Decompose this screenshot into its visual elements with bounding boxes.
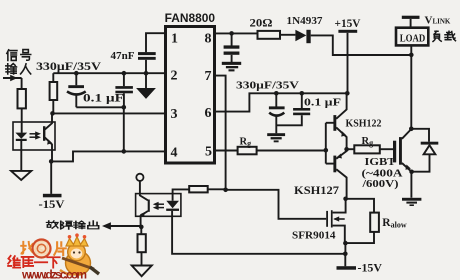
- junction dot pin7/gate node: [223, 188, 228, 193]
- power +15V rail: [338, 30, 357, 33]
- svg-text:2: 2: [171, 69, 178, 84]
- svg-text:SFR9014: SFR9014: [292, 230, 336, 242]
- junction dot IGBT emitter: [409, 170, 414, 175]
- svg-text:6: 6: [205, 106, 212, 121]
- junction dot C4 top: [229, 31, 234, 36]
- resistor R7 Ralow: [370, 213, 379, 232]
- wire source node down: [344, 243, 346, 254]
- wire R3 to D2: [280, 34, 295, 36]
- junction dot drain node: [343, 197, 348, 202]
- resistor R4 (opto U3 LED feed): [189, 186, 208, 192]
- junction dot caps rail: [122, 105, 127, 110]
- wire pin 5: [215, 150, 238, 152]
- wire LOAD bottom: [410, 45, 412, 55]
- wire fault output with left arrow: [111, 225, 142, 227]
- transistor Q1 KSH122: [326, 122, 334, 124]
- junction dot emitters node: [344, 147, 349, 152]
- junction dot -15V node: [343, 252, 348, 257]
- junction dot emitter U2: [49, 159, 54, 164]
- wire pin 8 rail: [215, 32, 258, 34]
- phototransistor inside U3: [148, 200, 150, 212]
- junction dot C1 top: [74, 71, 79, 76]
- ground (solid) below C3: [136, 88, 156, 99]
- wire U3 LED cathode long run: [172, 211, 345, 254]
- wire bases vertical: [325, 123, 327, 164]
- capacitor C4 (pin8 decoupling): [231, 33, 233, 45]
- svg-text:20Ω: 20Ω: [250, 16, 273, 30]
- wire pin 3 rail: [53, 112, 166, 114]
- MOSFET Q4 SFR9014: [326, 211, 328, 227]
- svg-text:47nF: 47nF: [111, 50, 135, 62]
- resistor R8 (fault pull-down): [140, 227, 142, 234]
- capacitor C2 0.1uF: [123, 73, 125, 86]
- junction dot on pin 4 rail: [122, 149, 127, 154]
- svg-text:/600V): /600V): [361, 178, 399, 190]
- svg-text:-15V: -15V: [39, 197, 65, 211]
- watermark mascot: [66, 251, 91, 275]
- ground (3-bar) below C4: [222, 62, 241, 65]
- IC U1 FAN8800: [165, 13, 216, 163]
- wire caps rail down to pin4 rail: [123, 107, 125, 151]
- resistor R6 Rg (right): [354, 145, 380, 153]
- optocoupler U2 box: [13, 122, 55, 150]
- wire load node down to IGBT collector: [410, 55, 412, 129]
- wire caps bottom rail: [76, 106, 124, 108]
- wire IGBT emitter to ground: [410, 172, 412, 198]
- svg-text:330µF/35V: 330µF/35V: [36, 59, 101, 73]
- svg-text:KSH127: KSH127: [294, 185, 339, 197]
- junction dot U3 emitter node: [139, 225, 144, 230]
- resistor R2 (x=53): [52, 73, 54, 82]
- wire pin 6 to caps rail: [215, 93, 348, 111]
- wire drain node to Ralow: [346, 199, 374, 213]
- IGBT Q3 channel bar: [399, 137, 402, 165]
- wire emitters to R6: [347, 148, 355, 150]
- resistor R3 20ohm: [258, 31, 281, 39]
- watermark badge circle: [33, 240, 51, 258]
- power VLINK bar: [402, 16, 420, 19]
- junction dot IGBT collector: [409, 127, 414, 132]
- ground (open triangle) below R8: [132, 266, 152, 277]
- LED inside U2: [15, 133, 27, 139]
- transistor Q2 KSH127: [326, 163, 334, 165]
- svg-text:1N4937: 1N4937: [287, 15, 323, 27]
- node: signal input terminal (信号输入): [7, 50, 17, 61]
- svg-text:www.dzsc.com: www.dzsc.com: [21, 268, 87, 280]
- label load (负载): [433, 31, 441, 41]
- wire pin 2 rail: [53, 72, 165, 74]
- watermark text 维库一下: [8, 256, 20, 268]
- phototransistor inside U2: [43, 126, 45, 141]
- svg-text:0.1 µF: 0.1 µF: [304, 97, 341, 109]
- diode D2 1N4937: [295, 30, 306, 42]
- terminal circle (fault output): [136, 174, 143, 181]
- wire R1 to optocoupler U2 LED: [21, 108, 23, 132]
- svg-text:Rg: Rg: [362, 136, 374, 148]
- junction dot LOAD/diode node: [409, 53, 414, 58]
- wire D2 to load node: [311, 35, 412, 55]
- power -15V rail (left): [43, 194, 62, 198]
- power -15V rail (right): [337, 266, 357, 270]
- LED inside U3: [166, 201, 179, 209]
- junction dot +15V/caps rail: [345, 91, 350, 96]
- junction dot C3/pin2: [144, 71, 149, 76]
- IGBT Q3 emitter lead: [402, 163, 412, 172]
- svg-text:+15V: +15V: [335, 16, 361, 30]
- svg-text:8: 8: [205, 31, 212, 46]
- wire signal input with right arrow: [3, 77, 22, 79]
- svg-text:LOAD: LOAD: [400, 33, 426, 44]
- diode D3 (freewheel): [411, 129, 429, 142]
- IGBT Q3 gate bar: [393, 141, 396, 163]
- svg-text:7: 7: [205, 69, 212, 84]
- load box LOAD: [396, 28, 428, 46]
- svg-text:3: 3: [171, 107, 178, 122]
- svg-text:-15V: -15V: [358, 263, 383, 275]
- ground (3-bar) below IGBT: [402, 198, 421, 201]
- resistor R5 Rg (left): [238, 147, 257, 155]
- svg-text:0.1 µF: 0.1 µF: [83, 93, 124, 105]
- junction dot C5 top: [274, 91, 279, 96]
- wire gate jog to Q4: [226, 190, 327, 219]
- label fault output (故障输出): [47, 221, 58, 228]
- svg-text:330µF/35V: 330µF/35V: [236, 80, 299, 92]
- svg-text:1: 1: [171, 31, 178, 46]
- capacitor C5 330uF/35V (second): [275, 93, 277, 106]
- resistor R1 (signal input series): [18, 89, 26, 108]
- ground (open triangle) below U2 LED: [11, 171, 31, 180]
- svg-text:FAN8800: FAN8800: [165, 13, 216, 25]
- svg-text:KSH122: KSH122: [346, 118, 382, 130]
- junction dot node A (pin3 net): [50, 111, 55, 116]
- ground (3-bar) below C5: [267, 133, 285, 136]
- svg-text:4: 4: [171, 146, 178, 161]
- capacitor C3 47nF: [138, 52, 156, 55]
- junction dot C2 top: [122, 71, 127, 76]
- wire R5 to bases: [257, 150, 326, 152]
- junction dot C6 top: [300, 91, 305, 96]
- wire pin 4 rail with jog: [51, 151, 166, 161]
- wire R4 to U3 LED anode: [173, 189, 190, 200]
- watermark text 找图片: [21, 242, 34, 254]
- U3 light arrows: [158, 203, 164, 205]
- junction dot bases node: [324, 148, 329, 153]
- wire R6 to IGBT gate: [380, 148, 393, 150]
- svg-text:IGBT: IGBT: [365, 156, 397, 168]
- capacitor C1 330uF/35V: [75, 73, 77, 85]
- wire Ralow to source node: [345, 232, 374, 243]
- wire to -15V rail: [344, 254, 346, 266]
- wire pin 7 down-rail: [215, 76, 226, 190]
- U2 light arrows: [30, 133, 37, 135]
- svg-text:5: 5: [205, 145, 212, 160]
- wire emitter to -15V: [50, 161, 52, 194]
- wire pin 1 to C3: [146, 33, 166, 52]
- svg-text:Rg: Rg: [240, 137, 252, 149]
- junction dot source node: [343, 241, 348, 246]
- IGBT Q3 collector lead: [402, 129, 411, 139]
- optocoupler U3 box: [136, 194, 181, 217]
- capacitor C6 0.1uF (second): [301, 93, 303, 108]
